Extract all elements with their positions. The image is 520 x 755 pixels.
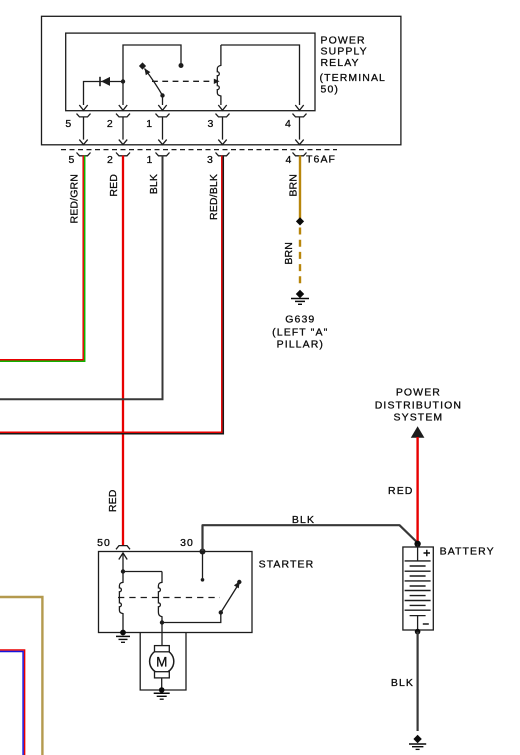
wire BRN dashed bbox=[299, 228, 301, 289]
splice node BRN bbox=[296, 217, 304, 225]
svg-text:SUPPLY: SUPPLY bbox=[321, 46, 368, 58]
svg-text:BLK: BLK bbox=[148, 174, 160, 194]
svg-text:G639: G639 bbox=[285, 314, 315, 326]
ground G639 bbox=[291, 290, 309, 305]
wire pin1 bbox=[162, 96, 164, 106]
svg-text:3: 3 bbox=[208, 118, 215, 130]
ground starter coil bbox=[116, 630, 130, 643]
wire RED battery bbox=[416, 437, 418, 543]
svg-text:DISTRIBUTION: DISTRIBUTION bbox=[375, 399, 462, 411]
arrow to power distribution bbox=[411, 426, 425, 438]
diode D1 bbox=[99, 77, 101, 86]
wire RED/BLK pin3 bbox=[0, 156, 222, 433]
wire BLK pin1 bbox=[0, 156, 163, 400]
svg-text:2: 2 bbox=[107, 118, 114, 130]
svg-text:RED: RED bbox=[107, 489, 119, 512]
connector T6AF dashed line bbox=[61, 149, 337, 151]
svg-text:5: 5 bbox=[69, 154, 76, 166]
svg-text:50: 50 bbox=[97, 537, 111, 549]
wire BLK battery to ground bbox=[417, 632, 419, 731]
pin arrows outer box bbox=[79, 140, 303, 145]
node battery positive bbox=[414, 541, 420, 547]
battery box bbox=[403, 547, 433, 630]
svg-text:2: 2 bbox=[107, 154, 114, 166]
motor sub-box bbox=[140, 633, 186, 691]
pin numbers row1 bbox=[65, 118, 292, 130]
svg-text:50): 50) bbox=[321, 84, 339, 96]
linkage arrowhead bbox=[214, 79, 220, 84]
svg-text:BATTERY: BATTERY bbox=[440, 546, 495, 558]
svg-text:1: 1 bbox=[146, 118, 153, 130]
wire diode branch bbox=[84, 82, 124, 106]
relay name label bbox=[320, 35, 387, 96]
node switch pivot bbox=[160, 93, 164, 97]
svg-text:SYSTEM: SYSTEM bbox=[394, 411, 444, 423]
svg-text:M: M bbox=[156, 654, 167, 669]
linkage dashed relay bbox=[152, 80, 213, 82]
switch blade arrowhead bbox=[145, 68, 151, 75]
svg-text:RED: RED bbox=[108, 174, 120, 197]
wire RED/BLU bottom left bbox=[0, 650, 25, 755]
svg-text:4: 4 bbox=[286, 154, 293, 166]
node switch fixed contact bbox=[179, 63, 184, 68]
node contact dot bbox=[201, 578, 205, 582]
pin arrows inner box bbox=[79, 105, 303, 110]
svg-text:5: 5 bbox=[65, 118, 72, 130]
wire RED/GRN pin5 bbox=[0, 156, 83, 360]
starter box bbox=[99, 552, 253, 633]
starter cup pin50 bbox=[116, 546, 130, 550]
switch contact dot bbox=[139, 62, 146, 69]
svg-text:STARTER: STARTER bbox=[259, 559, 315, 571]
svg-text:BRN: BRN bbox=[288, 174, 300, 197]
node blade pivot bbox=[219, 610, 223, 614]
pin numbers row2 bbox=[69, 154, 293, 166]
svg-text:T6AF: T6AF bbox=[306, 154, 336, 166]
svg-text:BLK: BLK bbox=[391, 677, 414, 689]
svg-text:RELAY: RELAY bbox=[321, 57, 360, 69]
wire pin50 stem bbox=[123, 554, 162, 572]
node terminal30 junction bbox=[200, 549, 206, 555]
node coil L2 bottom bbox=[160, 620, 164, 624]
linkage dashed starter bbox=[118, 597, 220, 599]
relay outer box bbox=[42, 16, 401, 145]
svg-text:4: 4 bbox=[285, 118, 292, 130]
relay coil bbox=[217, 45, 221, 105]
ground battery bbox=[409, 735, 426, 750]
svg-text:RED/GRN: RED/GRN bbox=[68, 174, 80, 223]
battery plus sign bbox=[424, 550, 431, 557]
node battery negative bbox=[415, 629, 421, 635]
svg-text:RED/BLK: RED/BLK bbox=[208, 174, 220, 220]
pin drop wires bbox=[84, 117, 300, 140]
battery top stem bbox=[417, 544, 419, 561]
svg-text:(TERMINAL: (TERMINAL bbox=[320, 72, 387, 84]
wire coil to pin4 bbox=[221, 45, 300, 105]
wire terminal30 contact bbox=[202, 552, 204, 579]
wire pin2 to switch contact bbox=[123, 45, 181, 105]
wire coil to motor bbox=[161, 621, 163, 646]
svg-text:3: 3 bbox=[207, 154, 214, 166]
svg-text:1: 1 bbox=[147, 154, 154, 166]
ground motor bbox=[154, 687, 170, 699]
pin cups inner box bbox=[77, 114, 307, 117]
svg-text:BLK: BLK bbox=[292, 514, 315, 526]
wire BRN pin4 bbox=[299, 156, 301, 219]
battery bottom stem bbox=[410, 616, 426, 630]
node diode junction bbox=[121, 79, 125, 83]
starter coil L2 bbox=[158, 572, 162, 622]
wire motor to ground bbox=[161, 678, 163, 689]
motor M1 bbox=[150, 649, 174, 673]
wire BLK starter to battery bbox=[203, 525, 418, 551]
starter switch blade bbox=[221, 584, 239, 613]
starter pin50 arrow bbox=[119, 553, 127, 560]
switch blade bbox=[145, 69, 163, 96]
wire TAN bottom left bbox=[0, 597, 42, 755]
battery plates bbox=[405, 561, 431, 610]
relay inner box bbox=[66, 33, 315, 111]
svg-text:BRN: BRN bbox=[283, 242, 295, 265]
node coil junction bbox=[121, 569, 125, 573]
svg-text:PILLAR): PILLAR) bbox=[277, 339, 324, 351]
starter coil L1 bbox=[119, 572, 123, 632]
wire coil to blade bbox=[162, 614, 221, 623]
svg-text:RED: RED bbox=[388, 485, 413, 497]
svg-text:POWER: POWER bbox=[396, 387, 441, 399]
battery minus sign bbox=[423, 623, 429, 625]
starter blade arrowhead bbox=[234, 581, 240, 588]
label G639 bbox=[272, 314, 328, 351]
svg-text:30: 30 bbox=[180, 537, 194, 549]
node blade tip bbox=[237, 580, 241, 584]
wire RED pin2 bbox=[122, 156, 124, 546]
label POWER DISTRIBUTION SYSTEM bbox=[375, 387, 462, 424]
svg-text:(LEFT "A": (LEFT "A" bbox=[272, 326, 328, 338]
connector cups row2 bbox=[77, 153, 307, 156]
